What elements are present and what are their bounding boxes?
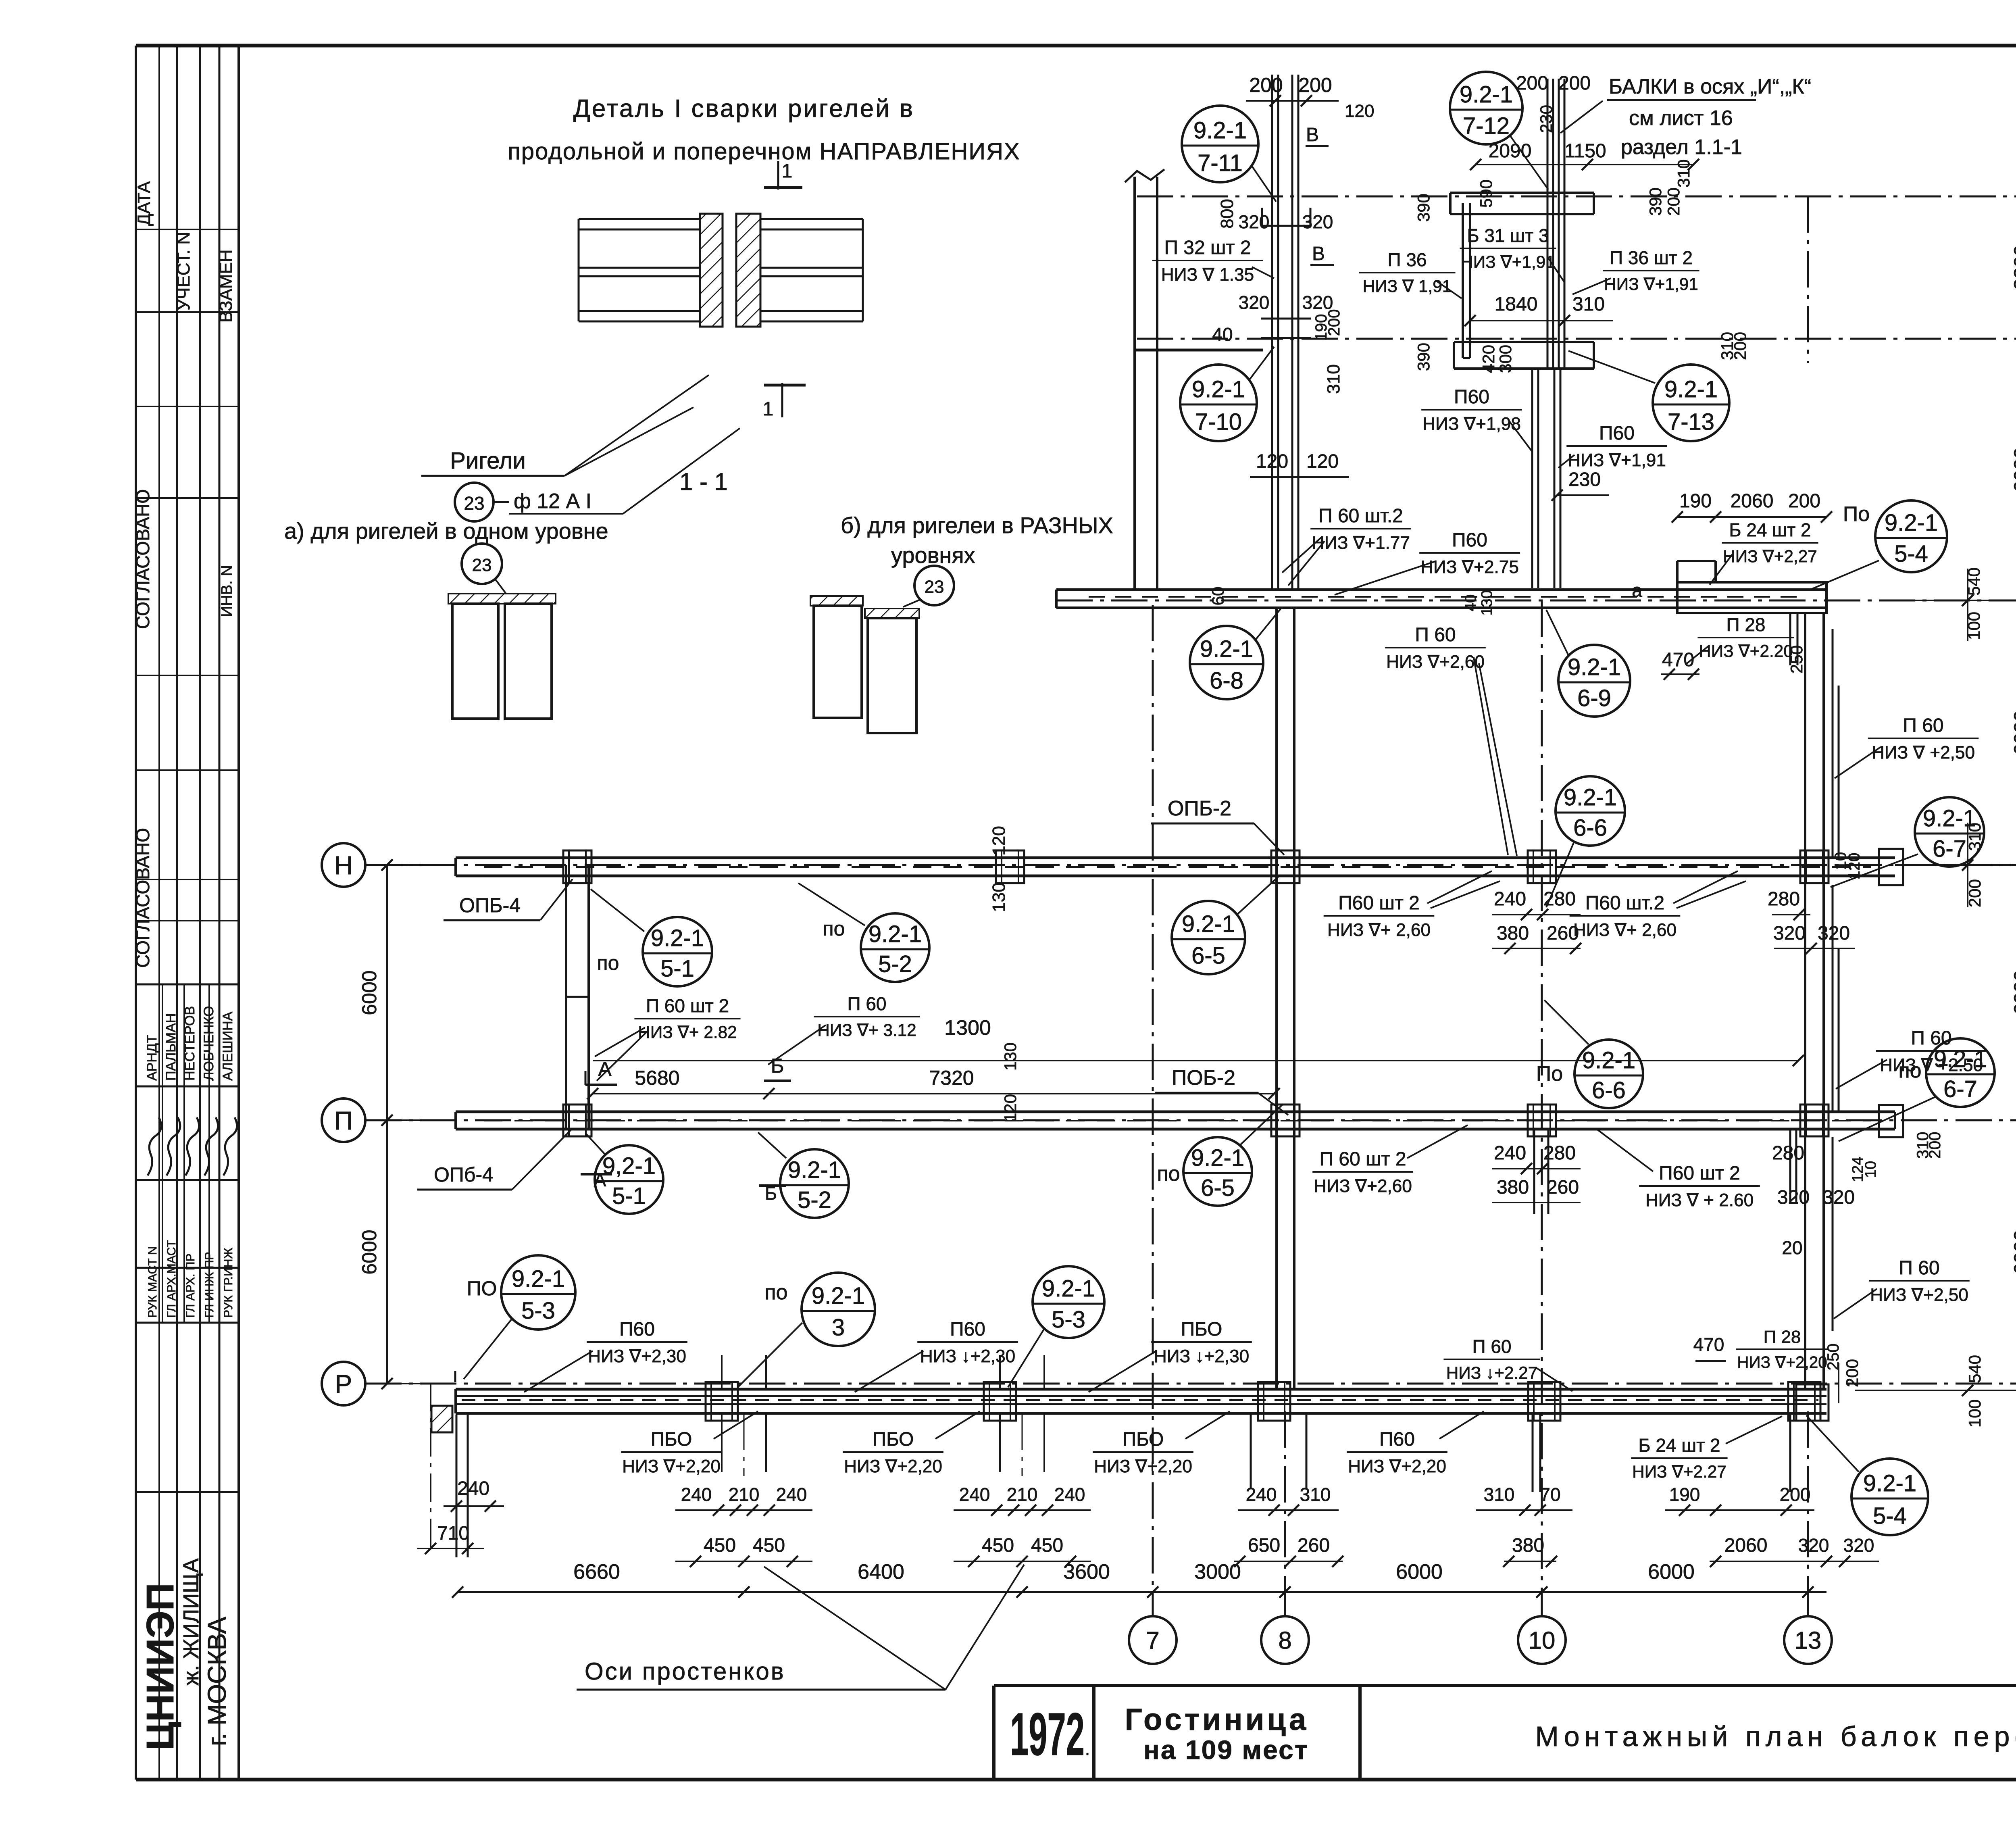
svg-text:НИЗ ∇+ 3.12: НИЗ ∇+ 3.12 bbox=[817, 1021, 916, 1040]
beam stubs below П near 10 and 13 bbox=[1533, 1129, 1535, 1214]
callout 9.2-1/6-6 upper bbox=[1556, 776, 1625, 846]
svg-text:НИЗ ∇+2,50: НИЗ ∇+2,50 bbox=[1870, 1285, 1968, 1305]
svg-text:НИЗ ↓+2.27: НИЗ ↓+2.27 bbox=[1446, 1363, 1538, 1382]
svg-text:210: 210 bbox=[1007, 1484, 1038, 1505]
svg-text:Гостиница: Гостиница bbox=[1125, 1703, 1309, 1737]
svg-text:НИЗ ↓+2,30: НИЗ ↓+2,30 bbox=[1154, 1346, 1249, 1366]
svg-text:320: 320 bbox=[1302, 211, 1333, 232]
svg-text:390: 390 bbox=[1646, 188, 1665, 216]
svg-text:9.2-1: 9.2-1 bbox=[1460, 81, 1513, 108]
svg-text:320: 320 bbox=[1843, 1535, 1874, 1556]
beam band axis П bbox=[456, 1111, 1895, 1113]
svg-text:Деталь I сварки ригелей в: Деталь I сварки ригелей в bbox=[573, 95, 914, 123]
svg-text:П 60: П 60 bbox=[1415, 624, 1456, 646]
bottom dimension chain bbox=[458, 1591, 1826, 1593]
title block bbox=[994, 1684, 2016, 1687]
svg-text:П 36: П 36 bbox=[1387, 249, 1427, 270]
svg-text:23: 23 bbox=[472, 555, 492, 575]
svg-text:6000: 6000 bbox=[1648, 1560, 1695, 1584]
svg-text:320: 320 bbox=[1798, 1535, 1829, 1556]
axis circles bottom bbox=[1129, 1616, 1177, 1664]
svg-text:9.2-1: 9.2-1 bbox=[812, 1283, 865, 1309]
beam П60 right of 13 upper (Н-М) bbox=[1832, 629, 1834, 858]
beam П60 right of 13 (П-Р) bbox=[1832, 1137, 1834, 1331]
svg-text:260: 260 bbox=[1547, 1177, 1579, 1198]
svg-text:НИЗ ∇ +2,50: НИЗ ∇ +2,50 bbox=[1872, 743, 1975, 763]
svg-text:9.2-1: 9.2-1 bbox=[1200, 636, 1253, 662]
callout 9,2-1/5-1 lower bbox=[595, 1145, 663, 1214]
svg-text:9.2-1: 9.2-1 bbox=[1191, 1145, 1244, 1171]
svg-text:П60 шт.2: П60 шт.2 bbox=[1585, 892, 1664, 914]
svg-text:П60: П60 bbox=[1599, 423, 1635, 444]
svg-text:9.2-1: 9.2-1 bbox=[1193, 117, 1247, 144]
svg-text:1840: 1840 bbox=[1495, 294, 1538, 315]
svg-text:П 60 шт.2: П 60 шт.2 bbox=[1318, 505, 1403, 527]
svg-text:НИЗ ∇+1.77: НИЗ ∇+1.77 bbox=[1312, 533, 1410, 553]
svg-text:6000: 6000 bbox=[2010, 447, 2016, 492]
svg-text:310: 310 bbox=[1674, 159, 1693, 188]
svg-text:130: 130 bbox=[1001, 1042, 1020, 1071]
svg-text:20: 20 bbox=[1782, 1237, 1802, 1258]
svg-text:23: 23 bbox=[925, 577, 944, 597]
beam П36 шт2 vertical right bbox=[1547, 79, 1549, 369]
svg-text:200: 200 bbox=[1558, 73, 1591, 94]
svg-text:120: 120 bbox=[1256, 451, 1288, 472]
svg-text:450: 450 bbox=[704, 1535, 736, 1556]
svg-text:240: 240 bbox=[1054, 1484, 1085, 1505]
svg-text:Б 24 шт 2: Б 24 шт 2 bbox=[1638, 1435, 1720, 1456]
svg-text:П 28: П 28 bbox=[1764, 1327, 1801, 1347]
svg-text:по: по bbox=[764, 1281, 787, 1304]
svg-text:240: 240 bbox=[681, 1484, 712, 1505]
svg-text:НИЗ ∇+2,60: НИЗ ∇+2,60 bbox=[1314, 1176, 1412, 1196]
piers on Н band bbox=[563, 850, 591, 883]
svg-text:8: 8 bbox=[1278, 1627, 1291, 1654]
horizontal axis lines bbox=[1137, 196, 2016, 198]
svg-text:РУК ГР.ИНЖ: РУК ГР.ИНЖ bbox=[222, 1248, 235, 1318]
svg-text:10: 10 bbox=[1529, 1627, 1556, 1654]
lower chord band at Л bbox=[1454, 341, 1594, 343]
svg-text:ОПб-4: ОПб-4 bbox=[434, 1163, 494, 1186]
svg-text:9.2-1: 9.2-1 bbox=[1192, 376, 1245, 402]
svg-text:см лист 16: см лист 16 bbox=[1629, 106, 1733, 130]
upper block left wall bbox=[1133, 177, 1136, 590]
svg-text:390: 390 bbox=[1414, 343, 1433, 371]
svg-text:100: 100 bbox=[1965, 1399, 1984, 1428]
svg-text:240: 240 bbox=[959, 1484, 990, 1505]
left margin strip bbox=[158, 46, 160, 1780]
svg-text:Монтажный план балок перекр: Монтажный план балок перекрытия bbox=[1535, 1721, 2016, 1752]
svg-text:6000: 6000 bbox=[2010, 970, 2016, 1015]
svg-text:9.2-1: 9.2-1 bbox=[1664, 376, 1718, 402]
svg-text:6000: 6000 bbox=[2010, 1230, 2016, 1274]
svg-text:2060: 2060 bbox=[1724, 1535, 1768, 1556]
svg-text:60: 60 bbox=[1208, 587, 1227, 606]
svg-text:7-13: 7-13 bbox=[1668, 409, 1714, 435]
svg-text:НИЗ ∇+1,91: НИЗ ∇+1,91 bbox=[1568, 450, 1666, 470]
piers below Р (простенки) bbox=[721, 1413, 723, 1472]
svg-text:280: 280 bbox=[1772, 1142, 1804, 1164]
svg-text:240: 240 bbox=[1494, 1142, 1526, 1164]
svg-text:5-2: 5-2 bbox=[878, 951, 912, 977]
svg-text:НИЗ ∇ + 2.60: НИЗ ∇ + 2.60 bbox=[1645, 1190, 1754, 1210]
svg-text:320: 320 bbox=[1239, 211, 1270, 232]
svg-text:380: 380 bbox=[1497, 1177, 1529, 1198]
svg-text:390: 390 bbox=[1414, 194, 1433, 222]
svg-text:6-7: 6-7 bbox=[1943, 1076, 1977, 1102]
svg-text:5-1: 5-1 bbox=[612, 1183, 646, 1209]
svg-text:ОПБ-2: ОПБ-2 bbox=[1168, 797, 1231, 820]
svg-text:7-10: 7-10 bbox=[1195, 409, 1242, 435]
pos 23 rebar label bbox=[455, 483, 494, 521]
Р left pillar bbox=[431, 1406, 452, 1432]
callout 9.2-1/6-8 bbox=[1190, 626, 1263, 699]
svg-text:590: 590 bbox=[1477, 179, 1495, 208]
svg-text:НИЗ ∇+1,91: НИЗ ∇+1,91 bbox=[1461, 252, 1555, 271]
svg-text:300: 300 bbox=[1496, 345, 1515, 373]
svg-text:П 60: П 60 bbox=[1903, 715, 1943, 736]
svg-text:П60: П60 bbox=[1454, 386, 1489, 408]
svg-text:130: 130 bbox=[989, 882, 1009, 912]
axis circles left bbox=[322, 843, 365, 887]
svg-text:6660: 6660 bbox=[573, 1560, 620, 1584]
wall band axis Р bbox=[456, 1388, 1826, 1391]
svg-text:В: В bbox=[1312, 243, 1325, 265]
svg-text:НИЗ ∇+2.27: НИЗ ∇+2.27 bbox=[1632, 1462, 1727, 1481]
svg-text:ГЛ АРХ. ПР: ГЛ АРХ. ПР bbox=[184, 1253, 197, 1318]
svg-text:ПО: ПО bbox=[467, 1277, 497, 1300]
svg-text:240: 240 bbox=[1494, 888, 1526, 910]
svg-text:А: А bbox=[594, 1169, 606, 1190]
left dimension chain bbox=[386, 865, 388, 1384]
svg-text:П 36 шт 2: П 36 шт 2 bbox=[1610, 247, 1693, 268]
signature stamp block bbox=[136, 984, 239, 986]
callout 9.2-1/5-4 bottom right bbox=[1851, 1459, 1928, 1535]
svg-text:310: 310 bbox=[1324, 364, 1343, 394]
svg-text:Н: Н bbox=[334, 851, 353, 880]
svg-text:9.2-1: 9.2-1 bbox=[1564, 784, 1617, 811]
svg-text:5-2: 5-2 bbox=[798, 1187, 831, 1213]
svg-text:230: 230 bbox=[1568, 469, 1601, 490]
svg-text:7320: 7320 bbox=[929, 1067, 974, 1089]
svg-text:П60: П60 bbox=[619, 1319, 655, 1340]
М axis wall band bbox=[1056, 588, 1826, 591]
svg-text:П60: П60 bbox=[950, 1319, 985, 1340]
svg-text:П60: П60 bbox=[1452, 529, 1487, 551]
svg-text:П 60 шт 2: П 60 шт 2 bbox=[1319, 1148, 1406, 1170]
svg-text:А: А bbox=[598, 1058, 612, 1080]
svg-text:5680: 5680 bbox=[635, 1067, 679, 1089]
svg-text:7-11: 7-11 bbox=[1198, 150, 1243, 176]
piers on Р band bbox=[706, 1382, 738, 1421]
Л level wall step bbox=[1136, 349, 1263, 352]
svg-text:320: 320 bbox=[1777, 1187, 1810, 1208]
svg-text:1150: 1150 bbox=[1564, 140, 1606, 162]
svg-text:70: 70 bbox=[1540, 1484, 1560, 1505]
svg-text:6-5: 6-5 bbox=[1191, 942, 1225, 969]
svg-text:450: 450 bbox=[753, 1535, 785, 1556]
svg-text:УЧЕСТ. N: УЧЕСТ. N bbox=[174, 232, 194, 311]
svg-text:260: 260 bbox=[1297, 1535, 1330, 1556]
svg-text:210: 210 bbox=[729, 1484, 760, 1505]
svg-text:6-8: 6-8 bbox=[1210, 667, 1243, 694]
svg-text:ф 12 А I: ф 12 А I bbox=[514, 490, 591, 513]
svg-text:П 60: П 60 bbox=[847, 993, 886, 1014]
svg-text:280: 280 bbox=[1768, 888, 1800, 910]
svg-text:3: 3 bbox=[832, 1314, 845, 1340]
svg-text:СОГЛАСОВАНО: СОГЛАСОВАНО bbox=[132, 489, 153, 629]
svg-text:200: 200 bbox=[1325, 309, 1343, 336]
svg-text:800: 800 bbox=[1217, 199, 1237, 228]
svg-text:240: 240 bbox=[776, 1484, 807, 1505]
svg-text:6-5: 6-5 bbox=[1201, 1175, 1235, 1201]
svg-text:5-3: 5-3 bbox=[1052, 1307, 1085, 1333]
svg-text:310: 310 bbox=[1572, 294, 1605, 315]
svg-text:1 - 1: 1 - 1 bbox=[679, 468, 728, 495]
svg-text:Б 31 шт 3: Б 31 шт 3 bbox=[1467, 225, 1549, 246]
svg-text:б) для ригелеи в РАЗНЫХ: б) для ригелеи в РАЗНЫХ bbox=[841, 513, 1113, 538]
svg-text:5-1: 5-1 bbox=[660, 955, 694, 982]
svg-text:40: 40 bbox=[1212, 324, 1233, 345]
svg-text:130: 130 bbox=[1479, 590, 1495, 615]
svg-text:320: 320 bbox=[1818, 923, 1850, 944]
svg-text:5-4: 5-4 bbox=[1873, 1503, 1907, 1529]
Р band right end piece bbox=[1796, 1384, 1829, 1421]
svg-text:5-3: 5-3 bbox=[521, 1298, 555, 1324]
svg-text:г. МОСКВА: г. МОСКВА bbox=[202, 1617, 231, 1746]
svg-text:120: 120 bbox=[1306, 451, 1339, 472]
beams П60 below Л bbox=[1531, 369, 1533, 588]
svg-text:200: 200 bbox=[1788, 490, 1820, 512]
svg-text:РУК МАСТ N: РУК МАСТ N bbox=[146, 1246, 159, 1318]
svg-text:13: 13 bbox=[1795, 1627, 1822, 1654]
svg-text:1972: 1972 bbox=[1010, 1700, 1085, 1768]
svg-text:БАЛКИ в осях „И“,„К“: БАЛКИ в осях „И“,„К“ bbox=[1609, 75, 1811, 98]
svg-text:Ригели: Ригели bbox=[450, 448, 526, 474]
svg-text:6000: 6000 bbox=[1396, 1560, 1443, 1584]
beam П60 right of 13 (Н-П) bbox=[1832, 885, 1834, 1112]
svg-text:250: 250 bbox=[1824, 1344, 1842, 1371]
callout 9.2-1/7-11 bbox=[1182, 106, 1258, 182]
svg-text:НИЗ ∇+2,60: НИЗ ∇+2,60 bbox=[1386, 652, 1485, 672]
svg-text:9.2-1: 9.2-1 bbox=[868, 921, 922, 947]
svg-text:200: 200 bbox=[1298, 74, 1332, 96]
svg-text:продольной и поперечном: продольной и поперечном НАПРАВЛЕНИЯХ bbox=[508, 138, 1020, 165]
callout 9.2-1/7-12 bbox=[1450, 72, 1522, 144]
svg-text:П 60: П 60 bbox=[1472, 1336, 1511, 1357]
svg-text:6-9: 6-9 bbox=[1577, 685, 1611, 711]
svg-text:200: 200 bbox=[1664, 188, 1683, 216]
svg-text:200: 200 bbox=[1843, 1359, 1862, 1387]
svg-text:ЛОБЧЕНКО: ЛОБЧЕНКО bbox=[201, 1006, 217, 1081]
svg-text:230: 230 bbox=[1537, 105, 1556, 133]
svg-text:по: по bbox=[823, 917, 845, 940]
П band right end piece bbox=[1879, 1105, 1903, 1137]
beam П36 vertical left bbox=[1462, 203, 1464, 358]
svg-text:40: 40 bbox=[1462, 594, 1479, 611]
svg-text:1: 1 bbox=[782, 160, 793, 182]
svg-text:10: 10 bbox=[1862, 1161, 1879, 1178]
svg-text:200: 200 bbox=[1249, 74, 1283, 96]
svg-text:НИЗ ∇+2,27: НИЗ ∇+2,27 bbox=[1723, 547, 1817, 566]
svg-text:По: По bbox=[1536, 1062, 1563, 1086]
svg-text:ПОБ-2: ПОБ-2 bbox=[1172, 1066, 1235, 1090]
pier marks above Р bbox=[721, 1355, 723, 1389]
svg-text:320: 320 bbox=[1239, 292, 1270, 313]
svg-text:1300: 1300 bbox=[944, 1016, 991, 1040]
svg-text:НИЗ ∇+ 2,60: НИЗ ∇+ 2,60 bbox=[1327, 920, 1431, 940]
svg-text:6000: 6000 bbox=[358, 1230, 381, 1274]
svg-text:380: 380 bbox=[1497, 923, 1529, 944]
svg-text:НИЗ ∇+2,20: НИЗ ∇+2,20 bbox=[1094, 1457, 1192, 1476]
svg-text:280: 280 bbox=[1543, 1142, 1576, 1164]
middle wall axis 8 (М to Р) bbox=[1275, 608, 1278, 1389]
sheet frame bbox=[136, 44, 2016, 48]
svg-text:НИЗ ∇+2,20: НИЗ ∇+2,20 bbox=[1348, 1457, 1446, 1476]
svg-text:2090: 2090 bbox=[1489, 140, 1532, 162]
svg-text:уровнях: уровнях bbox=[891, 542, 975, 568]
svg-text:120: 120 bbox=[1845, 853, 1863, 880]
svg-text:ПБО: ПБО bbox=[1181, 1319, 1223, 1340]
svg-text:250: 250 bbox=[1787, 645, 1806, 673]
svg-text:540: 540 bbox=[1965, 1355, 1984, 1383]
svg-text:9.2-1: 9.2-1 bbox=[788, 1157, 841, 1183]
svg-text:380: 380 bbox=[1512, 1535, 1544, 1556]
svg-text:3200: 3200 bbox=[2010, 245, 2016, 290]
svg-text:9.2-1: 9.2-1 bbox=[1863, 1470, 1916, 1496]
svg-text:7-12: 7-12 bbox=[1463, 113, 1510, 139]
svg-text:6000: 6000 bbox=[2010, 710, 2016, 755]
svg-text:П60 шт 2: П60 шт 2 bbox=[1659, 1163, 1740, 1184]
svg-text:НИЗ ∇+2,20: НИЗ ∇+2,20 bbox=[622, 1457, 721, 1476]
institute name bbox=[136, 1491, 239, 1493]
svg-text:по: по bbox=[1157, 1162, 1180, 1186]
svg-text:6-6: 6-6 bbox=[1592, 1077, 1626, 1104]
svg-text:НИЗ ∇ 1.35: НИЗ ∇ 1.35 bbox=[1161, 265, 1254, 285]
vertical pier lines below Р near 10 bbox=[1532, 1413, 1534, 1492]
detail I beams plan bbox=[579, 218, 702, 220]
svg-text:420: 420 bbox=[1479, 345, 1498, 373]
svg-text:.: . bbox=[1085, 1739, 1090, 1759]
П36-Б31 beam group top centre bbox=[1450, 192, 1594, 194]
callout 9.2-1/6-5 upper bbox=[1172, 901, 1245, 974]
svg-text:ДАТА: ДАТА bbox=[134, 181, 154, 226]
svg-text:120: 120 bbox=[1001, 1094, 1020, 1122]
svg-text:200: 200 bbox=[1731, 332, 1749, 360]
svg-text:НИЗ ∇+2.20: НИЗ ∇+2.20 bbox=[1699, 642, 1793, 661]
svg-text:НИЗ ∇ 1,91: НИЗ ∇ 1,91 bbox=[1363, 277, 1452, 296]
svg-text:ПБО: ПБО bbox=[1123, 1429, 1164, 1450]
svg-text:120: 120 bbox=[1345, 101, 1374, 121]
svg-text:240: 240 bbox=[457, 1478, 489, 1499]
svg-text:310: 310 bbox=[1300, 1484, 1331, 1505]
svg-text:на 109 мест: на 109 мест bbox=[1143, 1735, 1309, 1765]
section marks 1-1 bbox=[777, 161, 779, 190]
svg-text:710: 710 bbox=[437, 1523, 469, 1544]
svg-text:3000: 3000 bbox=[1194, 1560, 1241, 1584]
svg-text:6-7: 6-7 bbox=[1933, 836, 1966, 862]
svg-text:П60: П60 bbox=[1379, 1429, 1415, 1450]
callout 9.2-1/6-9 bbox=[1558, 645, 1630, 717]
svg-text:по: по bbox=[597, 952, 619, 974]
svg-text:320: 320 bbox=[1773, 923, 1806, 944]
svg-text:200: 200 bbox=[1780, 1484, 1811, 1505]
svg-text:НИЗ ∇+ 2.82: НИЗ ∇+ 2.82 bbox=[638, 1023, 737, 1042]
svg-text:6000: 6000 bbox=[358, 970, 381, 1015]
svg-text:ОПБ-4: ОПБ-4 bbox=[459, 894, 521, 917]
svg-text:ГЛ ИНЖ ПР: ГЛ ИНЖ ПР bbox=[203, 1252, 216, 1318]
svg-text:ВЗАМЕН: ВЗАМЕН bbox=[216, 249, 236, 323]
svg-text:7: 7 bbox=[1146, 1627, 1159, 1654]
beam П32 pair at axis 8 top bbox=[1271, 75, 1273, 590]
svg-text:раздел 1.1-1: раздел 1.1-1 bbox=[1621, 135, 1742, 159]
svg-text:ПАЛЬМАН: ПАЛЬМАН bbox=[163, 1013, 179, 1081]
svg-text:Оси простенков: Оси простенков bbox=[585, 1658, 785, 1685]
svg-text:ГЛ АРХ.МАСТ: ГЛ АРХ.МАСТ bbox=[165, 1240, 178, 1318]
svg-text:6-6: 6-6 bbox=[1573, 815, 1607, 841]
svg-text:9.2-1: 9.2-1 bbox=[651, 925, 704, 951]
svg-text:П60 шт 2: П60 шт 2 bbox=[1338, 892, 1420, 914]
svg-text:9.2-1: 9.2-1 bbox=[1182, 911, 1235, 937]
svg-text:190: 190 bbox=[1679, 490, 1712, 512]
svg-text:1: 1 bbox=[763, 398, 774, 420]
М pillar right bbox=[1677, 582, 1826, 613]
П28 beam near 13 below М bbox=[1789, 613, 1791, 665]
svg-text:а) для ригелей в одном уровн: а) для ригелей в одном уровне bbox=[284, 518, 608, 544]
svg-text:190: 190 bbox=[1669, 1484, 1700, 1505]
svg-text:Р: Р bbox=[335, 1369, 352, 1398]
svg-text:ПБО: ПБО bbox=[873, 1429, 914, 1450]
wall axis 13 (М to Р) bbox=[1804, 613, 1806, 1389]
svg-text:Б 24 шт 2: Б 24 шт 2 bbox=[1729, 519, 1811, 540]
callout 9.2-1/5-3 mid bbox=[1033, 1266, 1104, 1338]
callout 9.2-1/6-7 upper bbox=[1915, 797, 1984, 867]
callout 9.2-1/5-2 lower bbox=[780, 1149, 849, 1218]
svg-text:НИЗ ∇+1,98: НИЗ ∇+1,98 bbox=[1422, 414, 1521, 434]
svg-text:450: 450 bbox=[982, 1535, 1014, 1556]
svg-text:3600: 3600 bbox=[1063, 1560, 1110, 1584]
svg-text:НИЗ ∇ +2.50: НИЗ ∇ +2.50 bbox=[1880, 1055, 1983, 1075]
svg-text:650: 650 bbox=[1248, 1535, 1280, 1556]
svg-text:ИНВ. N: ИНВ. N bbox=[219, 565, 235, 617]
svg-text:Б: Б bbox=[771, 1055, 784, 1077]
left wing wall (Н to П) bbox=[565, 865, 567, 1129]
svg-text:120: 120 bbox=[989, 826, 1009, 855]
section sketches bbox=[462, 544, 502, 584]
svg-text:П 32 шт 2: П 32 шт 2 bbox=[1164, 237, 1251, 258]
svg-text:НИЗ ∇+2,20: НИЗ ∇+2,20 bbox=[1737, 1353, 1827, 1371]
svg-text:470: 470 bbox=[1662, 649, 1694, 671]
svg-text:6400: 6400 bbox=[858, 1560, 904, 1584]
svg-text:5-4: 5-4 bbox=[1894, 541, 1928, 567]
svg-text:НИЗ ∇+2.75: НИЗ ∇+2.75 bbox=[1420, 557, 1519, 577]
callout 9.2-1/7-10 bbox=[1180, 365, 1257, 441]
svg-text:260: 260 bbox=[1547, 923, 1579, 944]
svg-text:а: а bbox=[1632, 580, 1642, 601]
svg-text:АЛЕШИНА: АЛЕШИНА bbox=[220, 1011, 235, 1081]
svg-text:П 60 шт 2: П 60 шт 2 bbox=[646, 995, 729, 1016]
svg-text:200: 200 bbox=[1926, 1132, 1944, 1159]
svg-text:9.2-1: 9.2-1 bbox=[1885, 510, 1938, 536]
svg-text:НИЗ ∇+ 2,60: НИЗ ∇+ 2,60 bbox=[1573, 920, 1677, 940]
svg-text:П 60: П 60 bbox=[1899, 1257, 1939, 1279]
svg-text:СОГЛАСОВАНО: СОГЛАСОВАНО bbox=[132, 828, 153, 968]
Н band right end piece bbox=[1879, 849, 1903, 885]
svg-text:П 28: П 28 bbox=[1726, 614, 1765, 635]
piers on П band bbox=[563, 1105, 591, 1136]
svg-text:470: 470 bbox=[1693, 1334, 1724, 1355]
vertical axis lines 7 8 10 13 bbox=[1152, 605, 1154, 1616]
